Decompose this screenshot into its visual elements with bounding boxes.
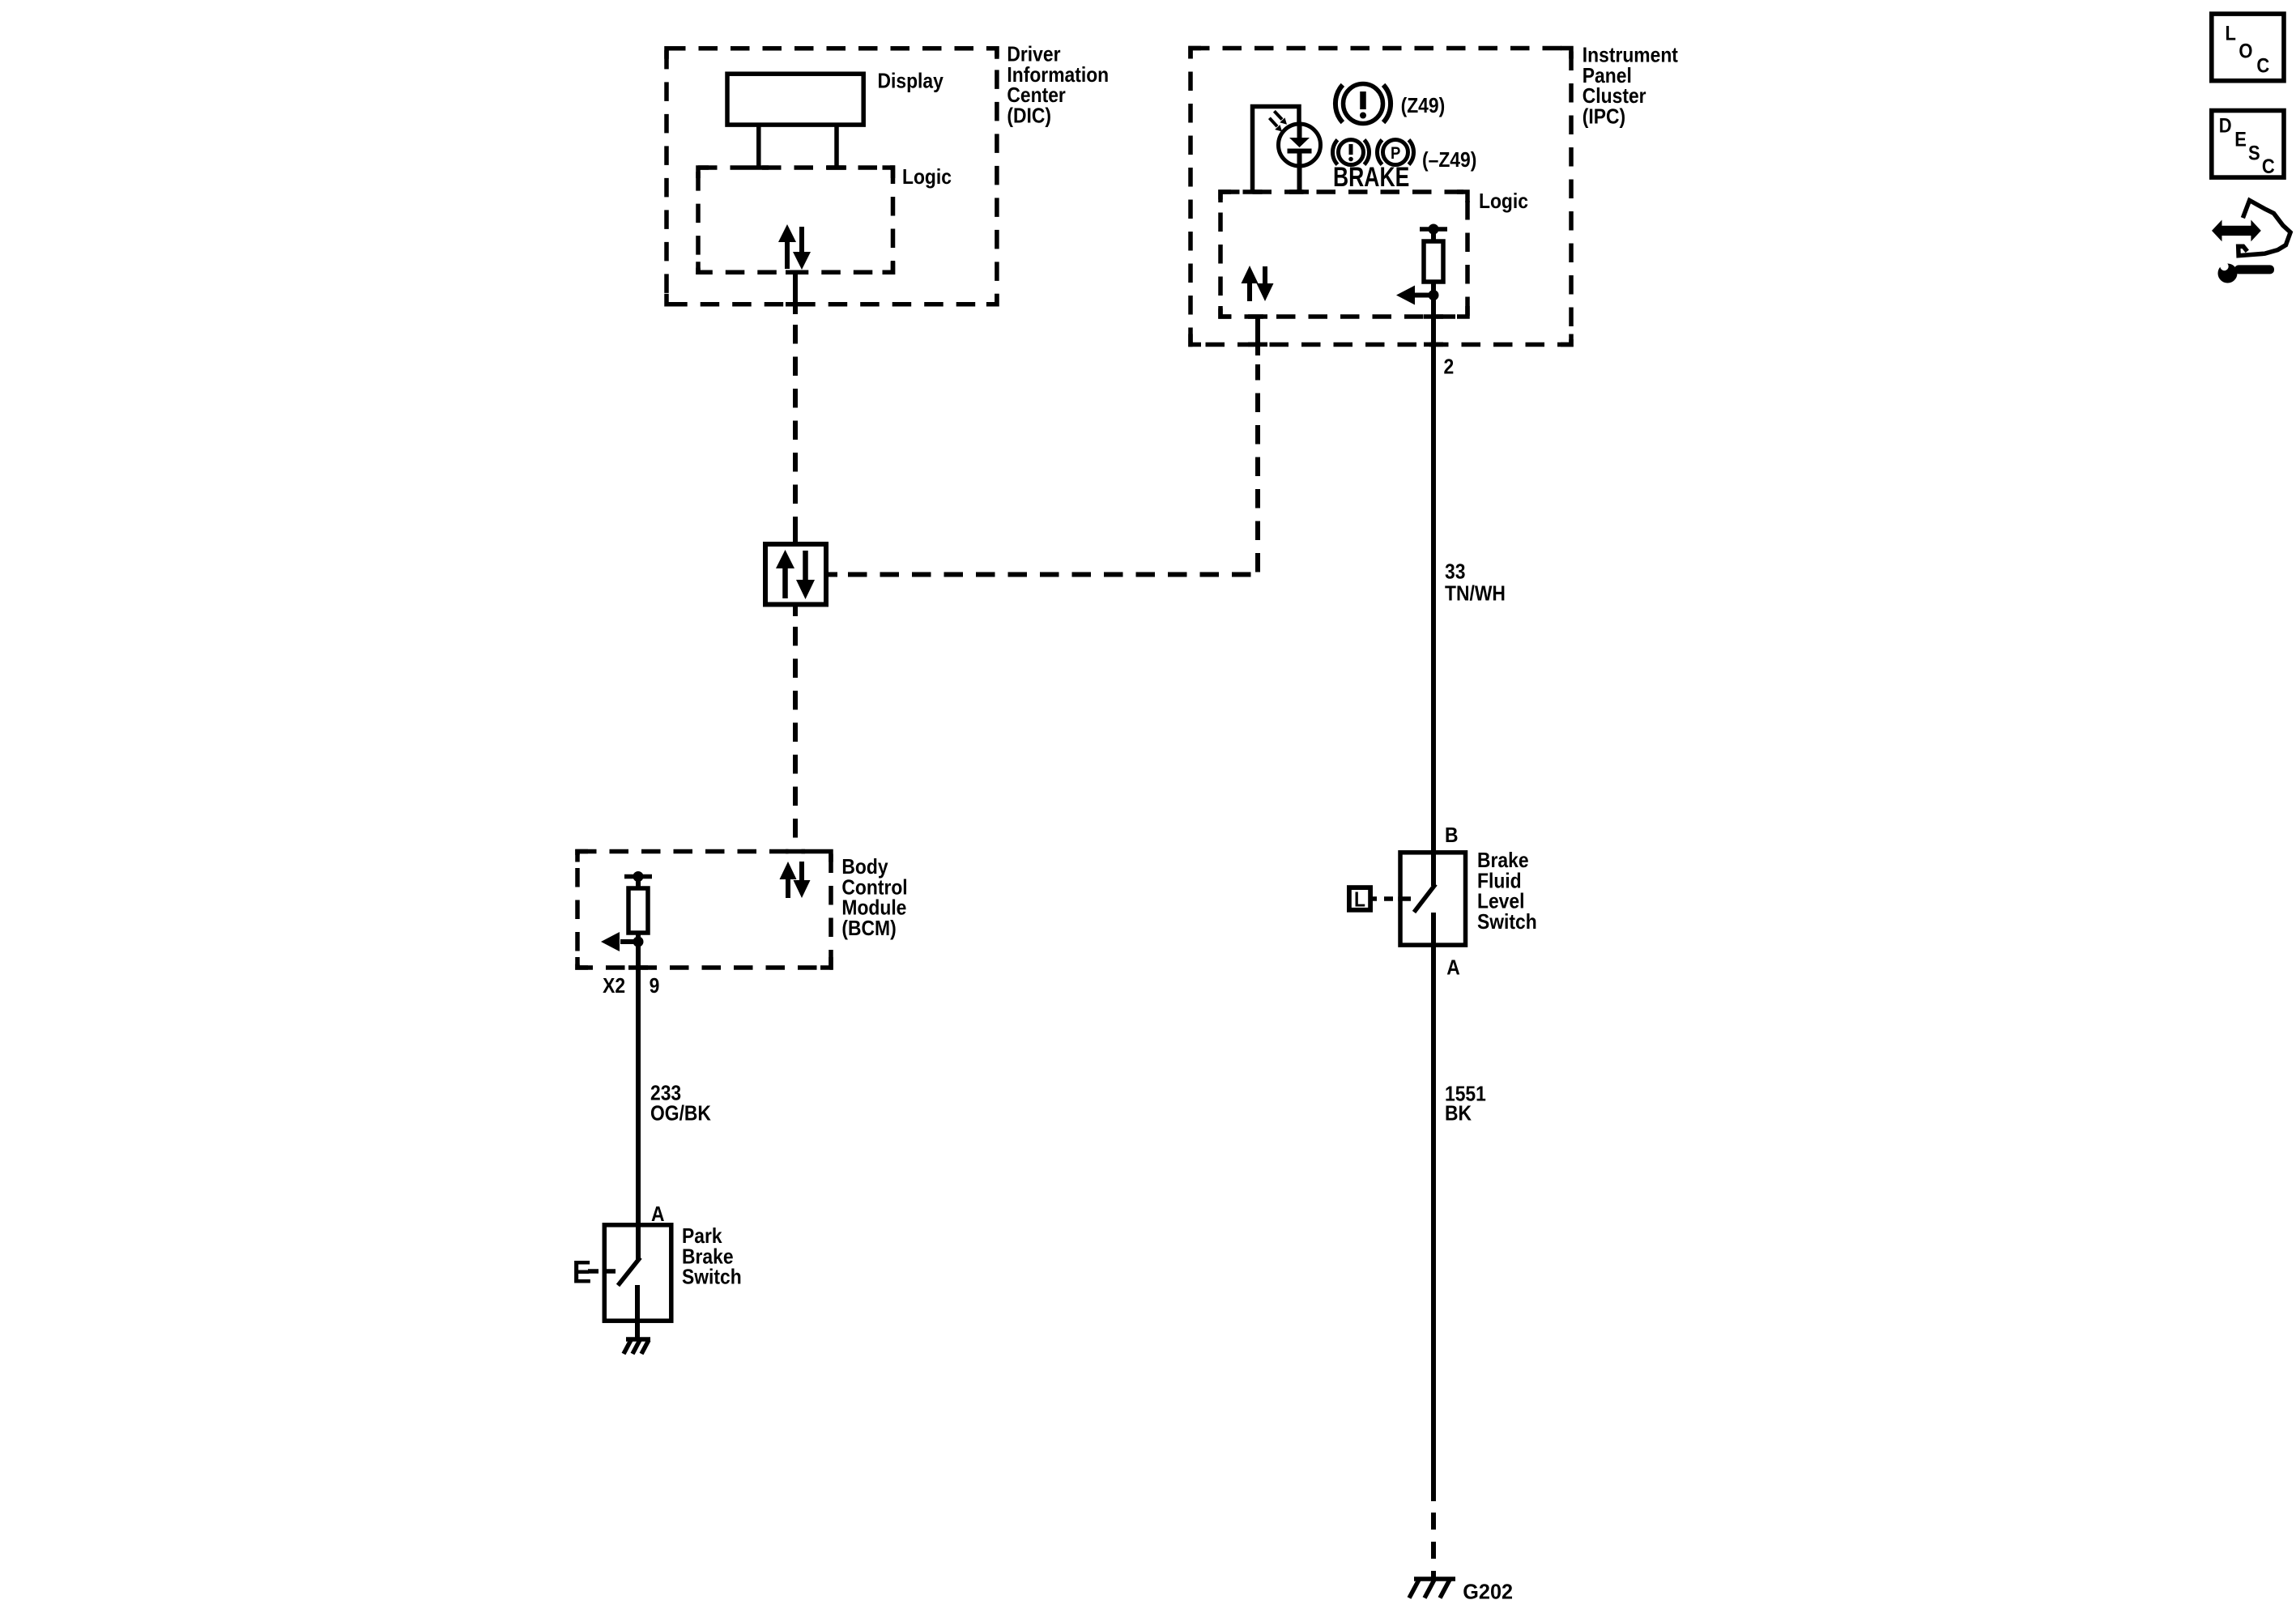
label: (-Z49) (1422, 149, 1476, 172)
wire label: 233 OG/BK (650, 1082, 711, 1126)
logic box (IPC) (1220, 192, 1467, 344)
LOC icon (2212, 14, 2284, 81)
svg-text:O: O (2238, 40, 2252, 62)
wire: BCM X2-9 output (233 OG/BK) (636, 942, 641, 1224)
svg-text:(Z49): (Z49) (1401, 95, 1446, 118)
label: Driver Information Center (DIC) (1007, 43, 1109, 128)
LED light arrows (1269, 111, 1287, 131)
wire: serial data (dashed) DIC to gateway (793, 325, 798, 534)
test point E connector (573, 1254, 616, 1291)
brake warning indicator icon (Z49) (1335, 84, 1391, 124)
label: Logic (IPC) (1479, 190, 1528, 214)
wire: serial data (dashed) gateway to BCM (793, 627, 798, 851)
module box: Instrument Panel Cluster (IPC) (1191, 49, 1571, 345)
svg-text:B: B (1445, 824, 1459, 848)
label: Brake Fluid Level Switch (1477, 849, 1537, 934)
wire: IPC pin 2 output (33 TN/WH) (1431, 296, 1436, 853)
module box: Driver Information Center (DIC) (667, 49, 997, 304)
signal arrow (BCM) (601, 932, 638, 951)
label: (Z49) (1401, 95, 1446, 118)
wire label: 33 TN/WH (1445, 560, 1506, 606)
svg-text:G202: G202 (1463, 1581, 1513, 1603)
label: Body Control Module (BCM) (841, 856, 907, 941)
pull-up resistor (BCM) (624, 871, 652, 941)
wire: IPC serial to boundary (1255, 317, 1260, 355)
pin 2 label (1444, 355, 1455, 379)
park brake switch box (604, 1225, 671, 1321)
logic box (DIC) (698, 168, 893, 272)
park brake switch contacts and blade (618, 1223, 641, 1339)
wire display leg left (756, 125, 761, 169)
brake warning indicator icons (-Z49) (1332, 140, 1413, 165)
LED indicator lamp (IPC) (1253, 107, 1321, 193)
pin A label (park brake switch) (651, 1203, 665, 1227)
label: G202 (1463, 1581, 1513, 1603)
svg-text:D: D (2219, 114, 2232, 137)
serial data arrows (DIC logic) (778, 224, 811, 270)
fluid level sensor L connector (1349, 887, 1411, 912)
svg-text:P: P (1391, 144, 1400, 163)
label: BRAKE (1333, 162, 1409, 193)
label: Instrument Panel Cluster (IPC) (1582, 44, 1678, 129)
brake fluid level switch box (1400, 853, 1466, 945)
label: Display (878, 70, 944, 93)
harness routing / tools icon (2212, 200, 2290, 283)
pin A label (brake fluid level switch) (1446, 956, 1460, 980)
serial data gateway box (765, 534, 837, 616)
serial data arrows (BCM) (780, 862, 811, 898)
junction node (BCM) (633, 937, 644, 947)
serial data arrows (IPC logic) (1242, 266, 1274, 301)
svg-text:9: 9 (650, 975, 660, 998)
wire display leg right (834, 125, 839, 169)
brake fluid level switch contacts and blade (1414, 850, 1436, 947)
svg-text:Display: Display (878, 70, 944, 93)
pull-up resistor (IPC) (1420, 224, 1447, 296)
ground G202 (1409, 1579, 1455, 1598)
display (DIC) (727, 74, 863, 125)
svg-text:C: C (2262, 155, 2275, 178)
svg-text:E: E (2234, 128, 2247, 151)
svg-text:A: A (1446, 956, 1460, 980)
svg-text:(–Z49): (–Z49) (1422, 149, 1476, 172)
wire label: 1551 BK (1445, 1083, 1486, 1126)
svg-text:C: C (2256, 54, 2269, 77)
wire: 1551 BK to ground (1431, 947, 1436, 1579)
pin B label (brake fluid level switch) (1445, 824, 1459, 848)
ground (park brake switch) (624, 1339, 650, 1354)
connector label X2 | 9 (603, 975, 659, 998)
svg-text:S: S (2248, 142, 2260, 164)
wire: DIC logic to DIC boundary (786, 272, 805, 314)
label: Logic (DIC) (902, 166, 952, 189)
svg-text:BRAKE: BRAKE (1333, 162, 1409, 193)
serial data arrows (gateway) (776, 550, 815, 599)
svg-text:Logic: Logic (1479, 190, 1528, 214)
signal arrow (IPC) (1396, 286, 1433, 305)
svg-text:Logic: Logic (902, 166, 952, 189)
module box: Body Control Module (BCM) (577, 852, 831, 968)
label: Park Brake Switch (682, 1225, 742, 1289)
wire: serial data (dashed) gateway to IPC (848, 364, 1258, 575)
junction node (IPC) (1429, 290, 1439, 300)
svg-text:2: 2 (1444, 355, 1455, 379)
DESC icon (2212, 111, 2284, 178)
svg-text:X2: X2 (603, 975, 625, 998)
svg-text:L: L (1354, 888, 1365, 912)
svg-text:L: L (2226, 22, 2236, 45)
